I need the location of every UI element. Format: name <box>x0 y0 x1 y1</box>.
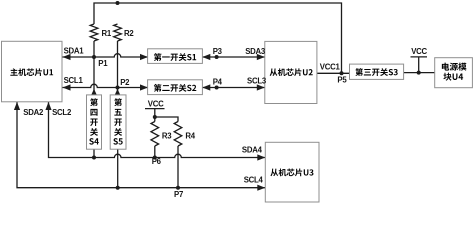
wire R3 to node P6 <box>154 146 156 158</box>
wire S3 to power module U4 <box>404 72 435 74</box>
wire SCL2: U1 bottom, down and right to U3 (SDA4), hops over S5 and R4 lines <box>49 102 266 158</box>
svg-text:P4: P4 <box>213 78 223 87</box>
node VCC tee <box>153 115 157 119</box>
svg-text:R4: R4 <box>185 131 195 140</box>
VCC supply symbol left <box>145 109 165 117</box>
wire R4 to node P7 <box>177 146 179 188</box>
resistor R1 <box>90 24 98 41</box>
arrow into S5 from node P2 <box>115 89 121 96</box>
svg-text:R3: R3 <box>162 131 172 140</box>
node P2 <box>116 86 120 90</box>
svg-text:R2: R2 <box>124 29 134 38</box>
node rail-R2 junction <box>116 1 120 5</box>
svg-text:SDA3: SDA3 <box>245 47 266 56</box>
svg-text:P3: P3 <box>213 47 223 56</box>
host chip U1 box 主机芯片U1 <box>2 41 63 102</box>
svg-text:VCC: VCC <box>148 99 164 108</box>
svg-text:SDA1: SDA1 <box>64 46 85 55</box>
switch S1 box 第一开关S1 <box>148 49 203 64</box>
svg-text:P2: P2 <box>120 78 130 87</box>
svg-text:P6: P6 <box>152 157 162 166</box>
resistor R2 <box>114 24 122 41</box>
arrow into S4 from SCL1 hop <box>91 89 97 96</box>
node P3 <box>215 55 219 59</box>
svg-text:R1: R1 <box>102 29 112 38</box>
wire SCL1: U1 to S2, hop over S4 line <box>63 84 149 87</box>
svg-text:VCC: VCC <box>411 47 427 56</box>
switch S5 box 第五开关S5 (vertical) <box>110 95 126 149</box>
switch S2 box 第二开关S2 <box>148 80 203 95</box>
svg-text:SCL1: SCL1 <box>64 76 84 85</box>
node P4 <box>215 86 219 90</box>
svg-text:SCL3: SCL3 <box>247 77 267 86</box>
wire R1 to SDA1 node P1, down to switch S4 <box>93 41 95 95</box>
VCC supply symbol right <box>411 57 428 73</box>
wire top VCC rail <box>94 3 342 66</box>
slave chip U2 box 从机芯片U2 <box>265 41 317 103</box>
resistor R4 <box>174 122 182 147</box>
slave chip U3 box 从机芯片U3 <box>265 142 319 202</box>
svg-text:VCC1: VCC1 <box>320 63 341 72</box>
svg-text:SDA2: SDA2 <box>23 108 44 117</box>
node P1 <box>92 55 96 59</box>
svg-text:SDA4: SDA4 <box>242 145 263 154</box>
svg-text:SCL2: SCL2 <box>52 108 72 117</box>
power module U4 box 电源模块U4 <box>435 58 473 88</box>
wire R2 through SDA1 to SCL1 node P2, down to switch S5 <box>117 41 119 95</box>
wire VCC tee to R3 / R4 tops <box>155 117 178 122</box>
resistor R3 <box>151 122 159 147</box>
svg-text:P5: P5 <box>337 75 347 84</box>
wire S1 to U2 (SDA3) through node P3 <box>202 56 264 58</box>
wire VCC1: U2 to S3 <box>317 72 350 74</box>
svg-text:P7: P7 <box>174 190 183 199</box>
wire SDA2: U1 bottom, down and right to U3 (SCL4) <box>17 102 265 188</box>
node P5 (rail drop joins VCC1) <box>341 66 343 73</box>
switch S4 box 第四开关S4 (vertical) <box>87 95 102 149</box>
wire SDA1: U1 to S1, hop over R2 line <box>63 54 149 57</box>
svg-text:P1: P1 <box>98 59 108 68</box>
switch S3 box 第三开关S3 <box>350 64 404 79</box>
wire switch S5 bottom to SDA2 row <box>117 149 119 188</box>
wire S2 to U2 (SCL3) through node P4 <box>202 87 264 89</box>
wire switch S4 bottom to SCL2 row <box>93 149 95 157</box>
svg-text:SCL4: SCL4 <box>244 175 264 184</box>
